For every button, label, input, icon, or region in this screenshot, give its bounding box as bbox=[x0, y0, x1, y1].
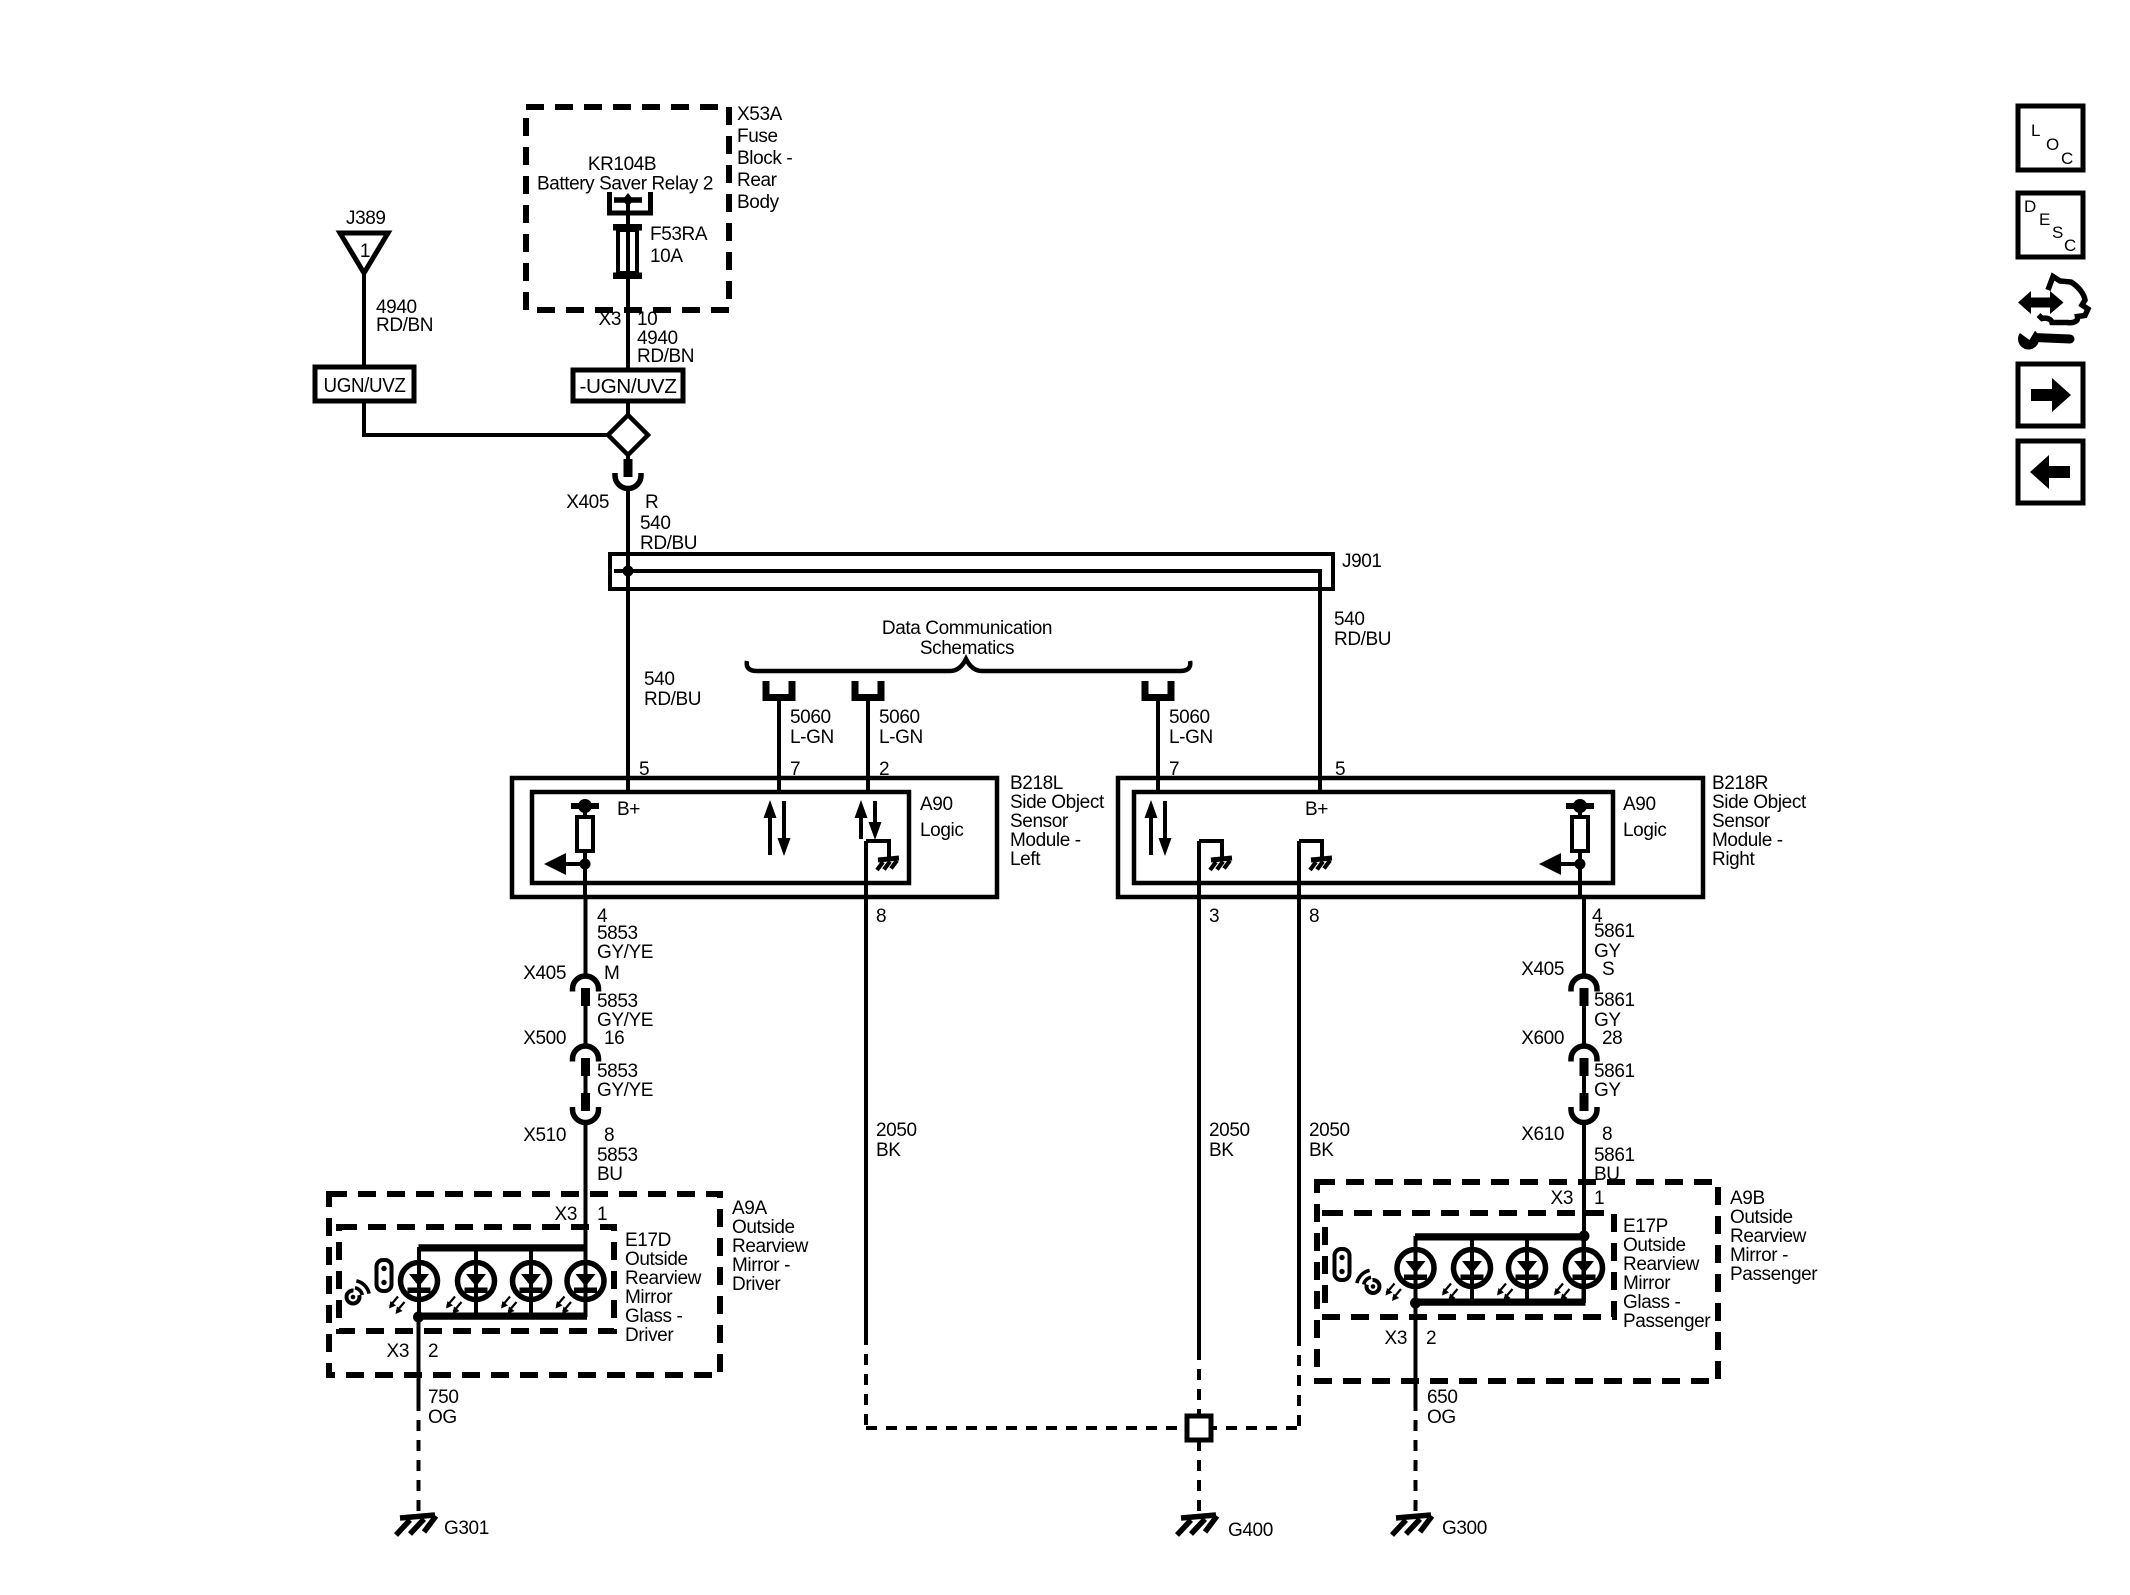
svg-text:Rearview: Rearview bbox=[1623, 1254, 1700, 1275]
svg-text:10A: 10A bbox=[650, 246, 683, 267]
svg-text:B+: B+ bbox=[617, 799, 640, 820]
junction dot B218R bbox=[1575, 859, 1586, 870]
brace bbox=[747, 659, 1191, 671]
module B218R logic box A90 bbox=[1134, 792, 1613, 883]
svg-text:E: E bbox=[2039, 210, 2050, 229]
wire 5853 GY/YE (X500 to X510) bbox=[584, 1075, 588, 1094]
svg-text:650: 650 bbox=[1427, 1387, 1458, 1408]
wire 2050 BK dashed segment (left) bbox=[864, 1334, 868, 1428]
svg-text:OG: OG bbox=[1427, 1407, 1456, 1428]
net -UGN/UVZ bbox=[573, 370, 683, 401]
icon service information (car + wrench) bbox=[2013, 277, 2088, 350]
LED wire 3 (E17D) bbox=[529, 1247, 533, 1317]
svg-text:X405: X405 bbox=[1521, 959, 1564, 980]
svg-text:750: 750 bbox=[428, 1387, 459, 1408]
label 540 RD/BU (right) bbox=[1334, 609, 1391, 650]
data arrows B218L pin2 bbox=[859, 816, 863, 839]
svg-text:Outside: Outside bbox=[625, 1249, 688, 1270]
wire 540 RD/BU (J901 to B218L pin 5) bbox=[626, 589, 630, 792]
svg-text:Rearview: Rearview bbox=[625, 1268, 702, 1289]
svg-text:2: 2 bbox=[1426, 1328, 1436, 1349]
module B218L outer box bbox=[512, 778, 997, 897]
blind zone icon (E17P) bbox=[1335, 1249, 1380, 1293]
wire 2050 BK (B218R pin3 down) bbox=[1197, 897, 1201, 1349]
wire fuse to -UGN/UVZ (4940 RD/BN) bbox=[626, 279, 630, 369]
svg-text:Outside: Outside bbox=[1623, 1235, 1686, 1256]
label A90 Logic (right) bbox=[1623, 794, 1666, 841]
svg-text:Sensor: Sensor bbox=[1010, 811, 1069, 832]
junction dot B218L bbox=[580, 859, 591, 870]
svg-text:B218R: B218R bbox=[1712, 773, 1768, 794]
splice box (ground distribution) bbox=[1187, 1416, 1211, 1440]
svg-text:Passenger: Passenger bbox=[1623, 1311, 1711, 1332]
svg-text:Driver: Driver bbox=[625, 1325, 674, 1346]
svg-text:5853: 5853 bbox=[597, 991, 638, 1012]
mirror glass E17D (dashed) bbox=[339, 1227, 614, 1331]
svg-text:Left: Left bbox=[1010, 849, 1041, 870]
svg-text:Logic: Logic bbox=[920, 820, 963, 841]
svg-text:BK: BK bbox=[1209, 1140, 1234, 1161]
svg-text:L-GN: L-GN bbox=[1169, 727, 1213, 748]
internal ground B218R pin8 bbox=[1299, 841, 1332, 870]
svg-text:RD/BU: RD/BU bbox=[640, 533, 697, 554]
svg-text:Schematics: Schematics bbox=[920, 638, 1014, 659]
svg-text:C: C bbox=[2061, 149, 2073, 168]
svg-text:B218L: B218L bbox=[1010, 773, 1063, 794]
label A9A Outside Rearview Mirror - Driver bbox=[732, 1198, 809, 1295]
LED D2 (E17D) bbox=[458, 1263, 495, 1300]
svg-text:Glass -: Glass - bbox=[625, 1306, 682, 1327]
label 2050 BK (middle) bbox=[1209, 1120, 1250, 1161]
svg-text:10: 10 bbox=[637, 309, 657, 330]
svg-text:5861: 5861 bbox=[1594, 921, 1635, 942]
wire B218R pin 8 bbox=[1297, 841, 1301, 897]
svg-text:E17D: E17D bbox=[625, 1230, 671, 1251]
svg-text:Right: Right bbox=[1712, 849, 1755, 870]
svg-text:X510: X510 bbox=[523, 1125, 566, 1146]
off-page connector 3 (data link) bbox=[1145, 681, 1171, 698]
LED wire 2 (E17P) bbox=[1470, 1236, 1474, 1303]
wire 5861 BU (X610 to A9B) bbox=[1582, 1122, 1586, 1236]
LED wire 4 (E17D) bbox=[584, 1247, 588, 1317]
ground G400 bbox=[1177, 1515, 1273, 1541]
svg-text:8: 8 bbox=[1602, 1124, 1612, 1145]
svg-text:540: 540 bbox=[640, 513, 671, 534]
wire 5060 L-GN 2 bbox=[866, 700, 870, 792]
svg-text:O: O bbox=[2046, 135, 2059, 154]
svg-text:A9A: A9A bbox=[732, 1198, 767, 1219]
svg-text:E17P: E17P bbox=[1623, 1216, 1668, 1237]
svg-text:M: M bbox=[604, 963, 619, 984]
label 5060 L-GN 1 bbox=[790, 707, 834, 748]
svg-text:X3: X3 bbox=[599, 309, 621, 330]
wire B218R pin 3 bbox=[1197, 841, 1201, 897]
icon arrow next bbox=[2018, 364, 2083, 426]
wire dashed pin8 to bus bbox=[1297, 1335, 1301, 1428]
svg-text:540: 540 bbox=[1334, 609, 1365, 630]
net UGN/UVZ bbox=[315, 367, 414, 401]
connector X500 pin 16 bbox=[523, 1028, 624, 1076]
svg-text:C: C bbox=[2064, 236, 2076, 255]
internal ground B218R pin3 bbox=[1199, 841, 1232, 870]
junction dot J901 bbox=[623, 566, 634, 577]
internal resistor B218R bbox=[1572, 809, 1588, 864]
wire 650 OG dashed to G300 bbox=[1414, 1400, 1418, 1516]
relay KR104B Battery Saver Relay 2 bbox=[537, 154, 713, 213]
svg-text:Mirror: Mirror bbox=[625, 1287, 673, 1308]
wire 2050 BK (B218R pin8 down) bbox=[1297, 897, 1301, 1335]
label E17P Outside Rearview Mirror Glass - Passenger bbox=[1623, 1216, 1711, 1332]
svg-text:X3: X3 bbox=[555, 1204, 577, 1225]
svg-text:Passenger: Passenger bbox=[1730, 1264, 1818, 1285]
svg-text:OG: OG bbox=[428, 1407, 457, 1428]
LED bus bottom (E17P) bbox=[1415, 1300, 1586, 1306]
svg-text:Outside: Outside bbox=[1730, 1207, 1793, 1228]
label E17D Outside Rearview Mirror Glass - Driver bbox=[625, 1230, 702, 1346]
svg-text:G300: G300 bbox=[1442, 1518, 1487, 1539]
svg-text:Glass -: Glass - bbox=[1623, 1292, 1680, 1313]
dashed ground bus bbox=[866, 1426, 1301, 1430]
svg-text:RD/BN: RD/BN bbox=[376, 315, 433, 336]
svg-text:D: D bbox=[2024, 197, 2036, 216]
wire 4940 RD/BN (J389 to UGN/UVZ) bbox=[362, 273, 366, 369]
label 5853 GY/YE bbox=[597, 923, 653, 963]
wire 540 RD/BU (J901 to B218R pin 5) bbox=[1318, 589, 1322, 792]
label 5853 GY/YE bbox=[597, 991, 653, 1031]
LED wire 4 (E17P) bbox=[1582, 1236, 1586, 1303]
icon DESC bbox=[2018, 193, 2083, 257]
svg-text:5861: 5861 bbox=[1594, 1145, 1635, 1166]
svg-text:Body: Body bbox=[737, 192, 780, 213]
svg-text:B+: B+ bbox=[1305, 799, 1328, 820]
LED bus bottom (E17D) bbox=[419, 1314, 588, 1320]
label 4940 RD/BN bbox=[637, 328, 694, 367]
wire 5853 GY/YE (pin4 to X405) bbox=[584, 897, 588, 977]
fuse F53RA 10A bbox=[613, 224, 708, 279]
svg-text:X3: X3 bbox=[1385, 1328, 1407, 1349]
wire dashed pin3 to splice bbox=[1197, 1349, 1201, 1416]
svg-text:S: S bbox=[2052, 223, 2063, 242]
svg-text:Data Communication: Data Communication bbox=[882, 618, 1052, 639]
svg-text:Driver: Driver bbox=[732, 1274, 781, 1295]
svg-text:F53RA: F53RA bbox=[650, 224, 708, 245]
svg-text:28: 28 bbox=[1602, 1028, 1622, 1049]
wire -UGN/UVZ to splice bbox=[626, 401, 630, 416]
label X53A Fuse Block - Rear Body bbox=[737, 104, 792, 213]
mirror assembly A9A (dashed) bbox=[329, 1194, 720, 1375]
svg-text:-UGN/UVZ: -UGN/UVZ bbox=[580, 375, 677, 398]
fuse block X53A (dashed) bbox=[526, 107, 729, 310]
svg-text:Module -: Module - bbox=[1712, 830, 1783, 851]
label B218R Side Object Sensor Module - Right bbox=[1712, 773, 1807, 870]
svg-text:5060: 5060 bbox=[879, 707, 920, 728]
B+ supply symbol B218L bbox=[571, 803, 599, 809]
connector X3 pin 10 labels bbox=[599, 309, 658, 330]
label A90 Logic (left) bbox=[920, 794, 963, 841]
label 5060 L-GN 2 bbox=[879, 707, 923, 748]
svg-text:R: R bbox=[645, 492, 658, 513]
svg-text:GY/YE: GY/YE bbox=[597, 942, 653, 963]
svg-text:X610: X610 bbox=[1521, 1124, 1564, 1145]
svg-text:RD/BU: RD/BU bbox=[1334, 629, 1391, 650]
connector X3 pin 2 labels (A9B) bbox=[1385, 1328, 1437, 1349]
svg-text:Fuse: Fuse bbox=[737, 126, 778, 147]
svg-text:A90: A90 bbox=[1623, 794, 1656, 815]
label 4940 RD/BN bbox=[376, 297, 433, 336]
svg-text:Module -: Module - bbox=[1010, 830, 1081, 851]
label 5861 GY bbox=[1594, 990, 1635, 1031]
svg-text:A90: A90 bbox=[920, 794, 953, 815]
svg-text:Mirror -: Mirror - bbox=[732, 1255, 790, 1276]
label 2050 BK (left) bbox=[876, 1120, 917, 1161]
svg-text:J389: J389 bbox=[346, 208, 386, 229]
svg-text:Block -: Block - bbox=[737, 148, 792, 169]
antenna J389 bbox=[340, 208, 388, 273]
junction dot (E17D out) bbox=[413, 1312, 424, 1323]
label 540 RD/BU bbox=[644, 669, 701, 710]
svg-text:540: 540 bbox=[644, 669, 675, 690]
label 5060 L-GN 3 bbox=[1169, 707, 1213, 748]
connector X3 pin 2 labels (A9A) bbox=[387, 1341, 439, 1362]
svg-text:1: 1 bbox=[360, 241, 370, 262]
svg-text:5060: 5060 bbox=[1169, 707, 1210, 728]
junction block J901 bbox=[610, 551, 1382, 589]
connector X600 pin 28 bbox=[1521, 1028, 1622, 1076]
label B218L Side Object Sensor Module - Left bbox=[1010, 773, 1105, 870]
svg-text:8: 8 bbox=[876, 906, 886, 927]
svg-text:2050: 2050 bbox=[1209, 1120, 1250, 1141]
wire B218L pin 8 (internal) bbox=[864, 841, 868, 897]
svg-text:X3: X3 bbox=[1551, 1188, 1573, 1209]
wire 5861 GY (pin4 to X405) bbox=[1582, 897, 1586, 977]
label Data Communication Schematics bbox=[882, 618, 1052, 659]
svg-text:J901: J901 bbox=[1342, 551, 1382, 572]
svg-text:Logic: Logic bbox=[1623, 820, 1666, 841]
svg-text:Battery Saver Relay 2: Battery Saver Relay 2 bbox=[537, 174, 713, 195]
svg-text:5861: 5861 bbox=[1594, 1061, 1635, 1082]
svg-text:RD/BU: RD/BU bbox=[644, 689, 701, 710]
svg-text:GY/YE: GY/YE bbox=[597, 1080, 653, 1101]
svg-text:X600: X600 bbox=[1521, 1028, 1564, 1049]
svg-text:KR104B: KR104B bbox=[588, 154, 656, 175]
label 650 OG bbox=[1427, 1387, 1458, 1428]
wire 5853 GY/YE (X405 to X500) bbox=[584, 1005, 588, 1047]
svg-text:UGN/UVZ: UGN/UVZ bbox=[324, 374, 406, 397]
connector X610 pin 8 bbox=[1521, 1093, 1612, 1145]
connector X510 pin 8 bbox=[523, 1093, 614, 1146]
LED wire 2 (E17D) bbox=[474, 1247, 478, 1317]
blind zone icon (E17D) bbox=[347, 1260, 392, 1303]
svg-text:2050: 2050 bbox=[1309, 1120, 1350, 1141]
LED bus top (E17D) bbox=[419, 1244, 588, 1250]
wire 750 OG dashed to G301 bbox=[417, 1400, 421, 1516]
svg-text:G400: G400 bbox=[1228, 1520, 1273, 1541]
module B218R outer box bbox=[1118, 778, 1703, 897]
svg-text:5853: 5853 bbox=[597, 1061, 638, 1082]
svg-text:RD/BN: RD/BN bbox=[637, 346, 694, 367]
wire 540 RD/BU (X405 to J901) bbox=[626, 490, 630, 556]
wire 5861 GY (X405 to X600) bbox=[1582, 1005, 1586, 1047]
ground G300 bbox=[1392, 1515, 1487, 1539]
connector X3 pin 1 labels (A9B) bbox=[1551, 1188, 1605, 1209]
off-page connector 2 (data link) bbox=[855, 681, 881, 698]
LED D1 (E17D) bbox=[401, 1263, 438, 1300]
svg-text:BK: BK bbox=[876, 1140, 901, 1161]
svg-text:L-GN: L-GN bbox=[879, 727, 923, 748]
label 5861 BU bbox=[1594, 1145, 1635, 1185]
label 540 RD/BU bbox=[640, 513, 697, 554]
LED bus top (E17P) bbox=[1415, 1233, 1586, 1239]
internal output arrow B218R bbox=[1539, 853, 1580, 875]
svg-text:5853: 5853 bbox=[597, 923, 638, 944]
wire dashed splice to G400 bbox=[1197, 1440, 1201, 1516]
internal resistor B218L bbox=[577, 809, 593, 864]
svg-text:Side Object: Side Object bbox=[1712, 792, 1807, 813]
label 5853 BU bbox=[597, 1145, 638, 1185]
svg-text:X500: X500 bbox=[523, 1028, 566, 1049]
LED D4 (E17D) bbox=[567, 1263, 604, 1300]
wire relay to fuse bbox=[626, 200, 630, 228]
svg-text:3: 3 bbox=[1209, 906, 1219, 927]
svg-text:Sensor: Sensor bbox=[1712, 811, 1771, 832]
icon arrow back bbox=[2018, 441, 2083, 503]
connector X405 S bbox=[1521, 959, 1614, 1006]
svg-text:1: 1 bbox=[1594, 1188, 1604, 1209]
svg-text:Outside: Outside bbox=[732, 1217, 795, 1238]
LED D2 (E17P) bbox=[1454, 1250, 1491, 1287]
svg-text:X405: X405 bbox=[566, 492, 609, 513]
LED wire 1 (E17D) bbox=[417, 1247, 421, 1317]
svg-text:8: 8 bbox=[1309, 906, 1319, 927]
svg-text:X53A: X53A bbox=[737, 104, 783, 125]
junction dot top (E17P) bbox=[1579, 1231, 1590, 1242]
connector X405 M bbox=[523, 963, 619, 1006]
LED cell outline (E17P) bbox=[1416, 1240, 1583, 1300]
LED D3 (E17P) bbox=[1509, 1250, 1546, 1287]
svg-text:A9B: A9B bbox=[1730, 1188, 1765, 1209]
mirror glass E17P (dashed) bbox=[1325, 1213, 1614, 1317]
LED D4 (E17P) bbox=[1566, 1250, 1603, 1287]
svg-text:5060: 5060 bbox=[790, 707, 831, 728]
svg-text:GY: GY bbox=[1594, 1080, 1621, 1101]
wire B218L pin 4 bbox=[583, 864, 587, 897]
internal ground B218L bbox=[866, 841, 899, 870]
LED D1 (E17P) bbox=[1397, 1250, 1434, 1287]
svg-text:L-GN: L-GN bbox=[790, 727, 834, 748]
splice diamond bbox=[608, 415, 648, 455]
LED cell outline bbox=[419, 1251, 586, 1314]
wire B218R pin 4 bbox=[1578, 864, 1582, 897]
svg-text:8: 8 bbox=[604, 1125, 614, 1146]
module B218L logic box A90 bbox=[532, 792, 909, 883]
svg-text:X405: X405 bbox=[523, 963, 566, 984]
svg-text:Rearview: Rearview bbox=[732, 1236, 809, 1257]
label 5861 GY bbox=[1594, 921, 1635, 962]
svg-text:16: 16 bbox=[604, 1028, 624, 1049]
B+ supply symbol B218R bbox=[1566, 803, 1594, 809]
junction dot bottom (E17P) bbox=[1410, 1298, 1421, 1309]
svg-text:2050: 2050 bbox=[876, 1120, 917, 1141]
ground G301 bbox=[396, 1515, 489, 1539]
data arrows B218R pin7 bbox=[1149, 816, 1153, 855]
LED wire 3 (E17P) bbox=[1525, 1236, 1529, 1303]
label 750 OG bbox=[428, 1387, 459, 1428]
wire 5861 GY (X600 to X610) bbox=[1582, 1075, 1586, 1094]
svg-text:BU: BU bbox=[597, 1164, 623, 1185]
svg-text:Mirror -: Mirror - bbox=[1730, 1245, 1788, 1266]
svg-text:L: L bbox=[2031, 121, 2040, 140]
svg-text:5861: 5861 bbox=[1594, 990, 1635, 1011]
svg-text:Side Object: Side Object bbox=[1010, 792, 1105, 813]
wire A9A X3-2 out bbox=[417, 1317, 421, 1400]
svg-text:BK: BK bbox=[1309, 1140, 1334, 1161]
svg-text:Mirror: Mirror bbox=[1623, 1273, 1671, 1294]
wire A9B X3-2 out bbox=[1414, 1303, 1418, 1400]
svg-text:Rearview: Rearview bbox=[1730, 1226, 1807, 1247]
svg-text:S: S bbox=[1602, 959, 1614, 980]
connector X3 pin 1 labels (A9A) bbox=[555, 1204, 608, 1225]
LED wire 1 (E17P) bbox=[1414, 1236, 1418, 1303]
svg-text:2: 2 bbox=[428, 1341, 438, 1362]
mirror assembly A9B (dashed) bbox=[1317, 1182, 1718, 1381]
svg-text:X3: X3 bbox=[387, 1341, 409, 1362]
LED D3 (E17D) bbox=[513, 1263, 550, 1300]
connector X405 R bbox=[566, 455, 658, 513]
svg-text:5853: 5853 bbox=[597, 1145, 638, 1166]
label 2050 BK (right) bbox=[1309, 1120, 1350, 1161]
svg-text:Rear: Rear bbox=[737, 170, 778, 191]
svg-text:1: 1 bbox=[597, 1204, 607, 1225]
off-page connector 1 (data link) bbox=[766, 681, 792, 698]
wire through J901 (left) bbox=[626, 556, 630, 588]
svg-text:G301: G301 bbox=[444, 1518, 489, 1539]
wire 5060 L-GN 3 bbox=[1156, 700, 1160, 792]
label 5853 GY/YE bbox=[597, 1061, 653, 1101]
wire UGN/UVZ to splice bbox=[362, 401, 609, 437]
wire 5060 L-GN 1 bbox=[777, 700, 781, 792]
wire 5853 BU (X510 to A9A) bbox=[584, 1122, 588, 1247]
label A9B Outside Rearview Mirror - Passenger bbox=[1730, 1188, 1818, 1285]
internal output arrow B218L bbox=[544, 853, 585, 875]
label 5861 GY bbox=[1594, 1061, 1635, 1101]
icon LOC bbox=[2018, 106, 2083, 170]
data arrows B218L pin7 bbox=[768, 816, 772, 855]
wire 2050 BK (B218L pin8 down) bbox=[864, 897, 868, 1334]
